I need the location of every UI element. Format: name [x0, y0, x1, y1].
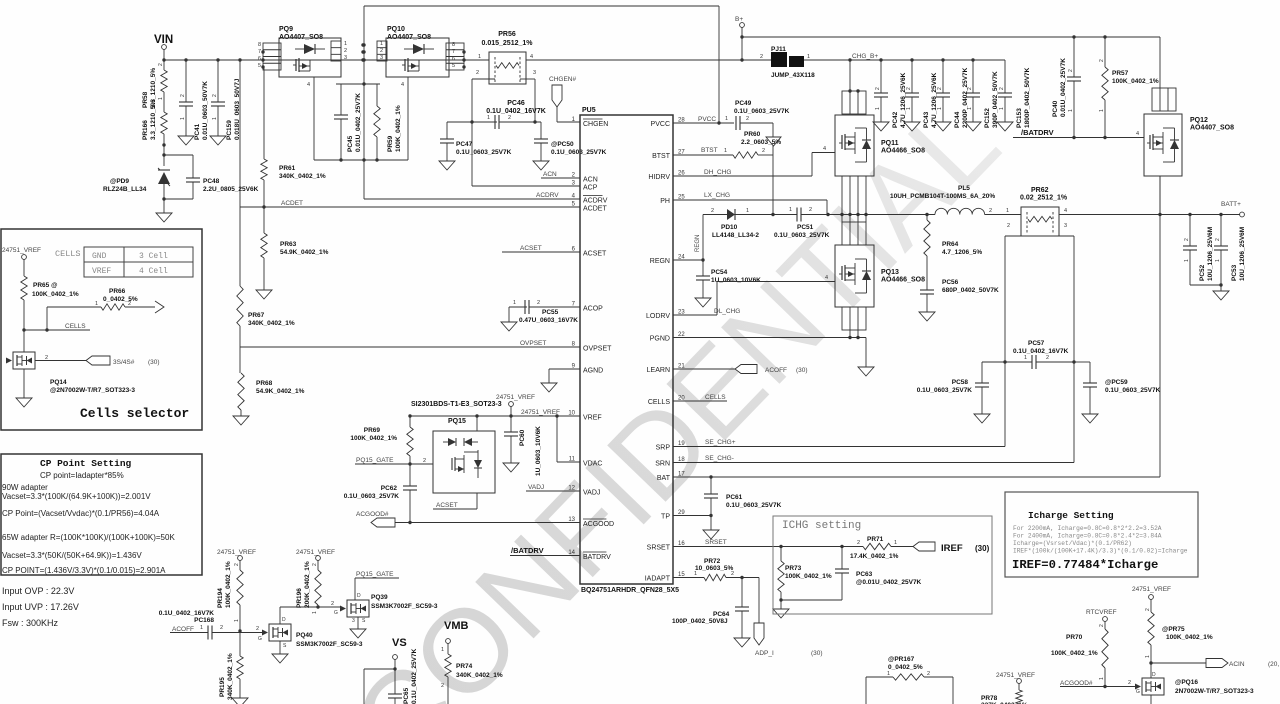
svg-text:1: 1: [1006, 208, 1009, 214]
svg-text:PC64: PC64: [713, 611, 730, 618]
svg-text:PC152: PC152: [984, 108, 991, 128]
svg-text:PQ9: PQ9: [279, 26, 293, 33]
svg-text:1: 1: [487, 115, 490, 121]
svg-text:0.01U_0603_50V7K: 0.01U_0603_50V7K: [202, 81, 209, 140]
svg-text:PC61: PC61: [726, 494, 743, 501]
svg-text:100K_0402_1%: 100K_0402_1%: [1166, 634, 1213, 641]
svg-text:LODRV: LODRV: [646, 313, 670, 320]
svg-text:24751_VREF: 24751_VREF: [1132, 586, 1171, 593]
svg-text:PR60: PR60: [744, 131, 761, 138]
svg-text:PL5: PL5: [958, 185, 970, 192]
svg-text:0.1U_0603_25V7K: 0.1U_0603_25V7K: [551, 149, 607, 156]
svg-text:BAT: BAT: [657, 475, 671, 482]
svg-text:54.9K_0402_1%: 54.9K_0402_1%: [256, 388, 305, 395]
svg-text:PC56: PC56: [942, 279, 959, 286]
svg-text:4: 4: [823, 146, 826, 152]
svg-text:1: 1: [180, 117, 186, 120]
svg-text:2: 2: [937, 87, 943, 90]
svg-text:2: 2: [256, 626, 259, 632]
svg-text:CHGEN: CHGEN: [583, 121, 608, 128]
svg-text:1: 1: [158, 97, 164, 100]
svg-text:VADJ: VADJ: [583, 490, 600, 497]
svg-text:@PR75: @PR75: [1162, 626, 1185, 633]
svg-text:PQ11: PQ11: [881, 140, 899, 147]
svg-text:2: 2: [331, 601, 334, 607]
svg-text:2: 2: [423, 458, 426, 464]
svg-text:PC46: PC46: [507, 100, 525, 107]
svg-text:JUMP_43X118: JUMP_43X118: [771, 72, 815, 79]
svg-text:0_0402_5%: 0_0402_5%: [888, 664, 923, 671]
svg-text:PR59: PR59: [387, 135, 394, 152]
svg-text:1: 1: [380, 41, 383, 47]
svg-text:2: 2: [927, 671, 930, 677]
svg-text:ACGOOD: ACGOOD: [583, 521, 614, 528]
svg-text:3: 3: [380, 55, 383, 61]
svg-text:2: 2: [344, 48, 347, 54]
svg-text:1: 1: [312, 611, 318, 614]
svg-text:1: 1: [999, 107, 1005, 110]
svg-text:LEARN: LEARN: [647, 367, 670, 374]
svg-text:100K_0402_1%: 100K_0402_1%: [32, 291, 79, 298]
svg-text:PR65 @: PR65 @: [33, 282, 57, 289]
svg-text:PC153: PC153: [1016, 108, 1023, 128]
svg-text:2: 2: [234, 563, 240, 566]
svg-text:REGN: REGN: [695, 235, 701, 252]
svg-text:IREF=0.77484*Icharge: IREF=0.77484*Icharge: [1012, 558, 1158, 572]
svg-text:0.1U_0603_25V7K: 0.1U_0603_25V7K: [1105, 387, 1161, 394]
svg-text:4.7U_1206_25V6K: 4.7U_1206_25V6K: [931, 72, 938, 128]
svg-text:1: 1: [1099, 109, 1105, 112]
svg-text:54.9K_0402_1%: 54.9K_0402_1%: [280, 249, 329, 256]
svg-text:90W adapter: 90W adapter: [2, 483, 48, 492]
svg-text:17.4K_0402_1%: 17.4K_0402_1%: [850, 553, 899, 560]
svg-text:2: 2: [380, 48, 383, 54]
svg-text:3.3_1210_5%: 3.3_1210_5%: [150, 100, 157, 140]
svg-text:PC55: PC55: [542, 309, 559, 316]
svg-text:PC45: PC45: [347, 135, 354, 152]
svg-text:ACSET: ACSET: [520, 245, 542, 252]
svg-text:PC51: PC51: [797, 224, 814, 231]
svg-text:D: D: [282, 617, 286, 623]
svg-text:2: 2: [1215, 238, 1221, 241]
svg-text:PR74: PR74: [456, 663, 473, 670]
svg-text:PR194: PR194: [217, 588, 224, 608]
svg-text:G: G: [258, 636, 262, 642]
svg-text:340K_0402_1%: 340K_0402_1%: [279, 173, 326, 180]
svg-text:1U_0603_10V6K: 1U_0603_10V6K: [711, 277, 761, 284]
svg-text:4.7U_1206_25V6K: 4.7U_1206_25V6K: [900, 72, 907, 128]
svg-text:0.01U_0402_25V7K: 0.01U_0402_25V7K: [355, 93, 362, 152]
svg-text:2: 2: [312, 563, 318, 566]
svg-text:PC60: PC60: [519, 429, 526, 446]
svg-text:OVPSET: OVPSET: [520, 340, 546, 347]
svg-text:2: 2: [1046, 355, 1049, 361]
svg-text:10_0603_5%: 10_0603_5%: [695, 565, 734, 572]
svg-text:1: 1: [200, 625, 203, 631]
svg-text:BATDRV: BATDRV: [583, 554, 611, 561]
svg-text:ACGOOD#: ACGOOD#: [356, 511, 389, 518]
svg-text:CHG_B+: CHG_B+: [852, 53, 878, 60]
svg-text:PD10: PD10: [721, 224, 738, 231]
svg-text:DL_CHG: DL_CHG: [714, 308, 740, 315]
svg-text:3: 3: [352, 618, 355, 624]
svg-text:LL4148_LL34-2: LL4148_LL34-2: [712, 232, 759, 239]
svg-text:PQ15: PQ15: [448, 418, 466, 425]
svg-text:PC62: PC62: [381, 485, 398, 492]
svg-text:AO4466_SO8: AO4466_SO8: [881, 277, 925, 284]
svg-text:1: 1: [234, 619, 240, 622]
svg-text:2: 2: [967, 87, 973, 90]
svg-text:PC159: PC159: [226, 120, 233, 140]
svg-text:5: 5: [452, 63, 455, 69]
svg-text:1: 1: [1215, 259, 1221, 262]
svg-text:Icharge=(Vsrset/Vdac)*(0.1/PR6: Icharge=(Vsrset/Vdac)*(0.1/PR62): [1013, 540, 1132, 547]
svg-text:PC57: PC57: [1028, 340, 1045, 347]
svg-text:ICHG setting: ICHG setting: [782, 520, 861, 532]
svg-text:/BATDRV: /BATDRV: [1021, 128, 1054, 137]
svg-text:PVCC: PVCC: [698, 116, 716, 123]
svg-text:4 Cell: 4 Cell: [139, 267, 168, 276]
svg-text:D: D: [357, 593, 361, 599]
svg-text:3S/4S#: 3S/4S#: [113, 359, 135, 366]
svg-text:1: 1: [441, 647, 444, 653]
svg-text:0.47U_0603_16V7K: 0.47U_0603_16V7K: [519, 317, 578, 324]
svg-text:1: 1: [344, 41, 347, 47]
svg-text:100K_0402_1%: 100K_0402_1%: [350, 435, 397, 442]
svg-text:PR195: PR195: [219, 677, 226, 697]
svg-text:VDAC: VDAC: [583, 461, 602, 468]
svg-text:1: 1: [746, 208, 749, 214]
svg-text:24751_VREF: 24751_VREF: [521, 409, 560, 416]
svg-text:For 2400mA, Icharge=0.8C=0.8*2: For 2400mA, Icharge=0.8C=0.8*2.4*2=3.84A: [1013, 533, 1162, 540]
svg-text:LX_CHG: LX_CHG: [704, 192, 730, 199]
svg-text:VS: VS: [392, 637, 407, 649]
svg-text:ACOFF: ACOFF: [172, 626, 194, 633]
svg-text:2: 2: [508, 115, 511, 121]
svg-text:PR56: PR56: [498, 31, 516, 38]
svg-text:PC42: PC42: [892, 111, 899, 128]
svg-text:PC52: PC52: [1199, 264, 1206, 281]
svg-text:G: G: [1136, 689, 1140, 695]
svg-text:@PC50: @PC50: [551, 141, 574, 148]
svg-text:0.1U_0603_25V7K: 0.1U_0603_25V7K: [917, 387, 973, 394]
svg-text:1800P_0402_50V7K: 1800P_0402_50V7K: [1024, 67, 1031, 128]
svg-text:SRSET: SRSET: [705, 539, 727, 546]
svg-text:0.015_2512_1%: 0.015_2512_1%: [482, 40, 534, 47]
svg-text:2200P_0402_25V7K: 2200P_0402_25V7K: [962, 67, 969, 128]
svg-text:2: 2: [1068, 69, 1074, 72]
svg-text:2: 2: [220, 625, 223, 631]
svg-text:BQ24751ARHDR_QFN28_5X5: BQ24751ARHDR_QFN28_5X5: [581, 587, 679, 594]
svg-text:BTST: BTST: [701, 147, 718, 154]
svg-text:CP point=Iadapter*85%: CP point=Iadapter*85%: [40, 471, 124, 480]
svg-text:D: D: [1152, 672, 1156, 678]
svg-text:/BATDRV: /BATDRV: [511, 546, 544, 555]
svg-text:PC44: PC44: [954, 111, 961, 128]
svg-text:ACP: ACP: [583, 185, 598, 192]
svg-text:2: 2: [760, 54, 763, 60]
svg-text:2: 2: [1128, 680, 1131, 686]
svg-text:2: 2: [45, 355, 48, 361]
svg-text:340K_0402_1%: 340K_0402_1%: [248, 320, 295, 327]
svg-text:0.1U_0603_25V7K: 0.1U_0603_25V7K: [726, 502, 782, 509]
svg-text:ACGOOD#: ACGOOD#: [1060, 680, 1093, 687]
svg-text:2: 2: [1184, 238, 1190, 241]
svg-text:24751_VREF: 24751_VREF: [496, 394, 535, 401]
svg-text:4: 4: [307, 82, 310, 88]
svg-text:PR61: PR61: [279, 165, 296, 172]
svg-text:24751_VREF: 24751_VREF: [996, 672, 1035, 679]
svg-text:24751_VREF: 24751_VREF: [296, 549, 335, 556]
svg-text:PQ13: PQ13: [881, 269, 899, 276]
svg-text:1: 1: [906, 107, 912, 110]
svg-text:BATT+: BATT+: [1221, 201, 1241, 208]
svg-text:6: 6: [258, 56, 261, 62]
svg-text:Input UVP : 17.26V: Input UVP : 17.26V: [2, 602, 79, 612]
svg-text:(20,: (20,: [1268, 661, 1279, 668]
svg-text:PQ40: PQ40: [296, 632, 313, 639]
svg-text:2: 2: [158, 63, 164, 66]
svg-text:CP POINT=(1.436V/3.3V)*(0.1/0.: CP POINT=(1.436V/3.3V)*(0.1/0.015)=2.901…: [2, 566, 166, 575]
svg-text:10U_1206_25V6M: 10U_1206_25V6M: [1239, 227, 1246, 281]
svg-text:ACSET: ACSET: [583, 251, 607, 258]
svg-text:TP: TP: [661, 514, 670, 521]
svg-text:@PD9: @PD9: [110, 178, 129, 185]
svg-text:2: 2: [746, 116, 749, 122]
svg-text:2: 2: [1099, 624, 1105, 627]
svg-text:ACN: ACN: [543, 171, 557, 178]
svg-text:PR78: PR78: [981, 695, 998, 702]
svg-text:1: 1: [967, 107, 973, 110]
svg-text:24751_VREF: 24751_VREF: [2, 247, 41, 254]
svg-text:Icharge Setting: Icharge Setting: [1028, 510, 1114, 521]
svg-text:ACOP: ACOP: [583, 306, 603, 313]
svg-text:PR196: PR196: [296, 588, 303, 608]
svg-text:Vacset=3.3*(100K/(64.9K+100K)): Vacset=3.3*(100K/(64.9K+100K))=2.001V: [2, 492, 151, 501]
svg-text:2: 2: [875, 87, 881, 90]
svg-text:ACIN: ACIN: [1229, 661, 1245, 668]
svg-text:1: 1: [478, 54, 481, 60]
svg-text:SSM3K7002F_SC59-3: SSM3K7002F_SC59-3: [296, 641, 363, 648]
svg-text:SI2301BDS-T1-E3_SOT23-3: SI2301BDS-T1-E3_SOT23-3: [411, 401, 502, 408]
svg-text:PC58: PC58: [952, 379, 969, 386]
svg-text:0_0402_5%: 0_0402_5%: [103, 296, 138, 303]
svg-text:PR72: PR72: [704, 558, 721, 565]
svg-text:VREF: VREF: [92, 267, 111, 276]
svg-text:B+: B+: [735, 16, 743, 23]
svg-text:PQ14: PQ14: [50, 379, 67, 386]
svg-text:0.1U_0603_25V7K: 0.1U_0603_25V7K: [456, 149, 512, 156]
svg-text:8: 8: [258, 42, 261, 48]
svg-text:SE_CHG-: SE_CHG-: [705, 455, 734, 462]
svg-text:0.02_2512_1%: 0.02_2512_1%: [1020, 195, 1068, 202]
svg-text:2: 2: [711, 208, 714, 214]
svg-text:RLZ24B_LL34: RLZ24B_LL34: [103, 186, 147, 193]
svg-text:PR62: PR62: [1031, 187, 1049, 194]
svg-text:2: 2: [999, 87, 1005, 90]
svg-text:PC43: PC43: [923, 111, 930, 128]
svg-text:3: 3: [533, 70, 536, 76]
svg-text:1: 1: [95, 301, 98, 307]
svg-text:2: 2: [212, 94, 218, 97]
svg-text:(30): (30): [811, 650, 823, 657]
svg-text:PH: PH: [660, 198, 670, 205]
svg-text:100K_0402_1%: 100K_0402_1%: [1051, 650, 1098, 657]
svg-text:@PC59: @PC59: [1105, 379, 1128, 386]
svg-text:For 2200mA, Icharge=0.8C=0.8*2: For 2200mA, Icharge=0.8C=0.8*2*2.2=3.52A: [1013, 525, 1162, 532]
svg-text:2: 2: [180, 94, 186, 97]
svg-text:65W adapter R=(100K*100K)/(10: 65W adapter R=(100K*100K)/(100K+100K)=50…: [2, 533, 175, 542]
svg-text:PQ15_GATE: PQ15_GATE: [356, 457, 394, 464]
svg-text:PC168: PC168: [194, 617, 214, 624]
svg-text:CELLS: CELLS: [55, 249, 81, 259]
svg-text:680P_0402_50V7K: 680P_0402_50V7K: [942, 287, 999, 294]
svg-text:200K_0402_1%: 200K_0402_1%: [304, 561, 311, 608]
svg-text:CELLS: CELLS: [648, 399, 671, 406]
svg-text:5: 5: [258, 63, 261, 69]
svg-text:Fsw : 300KHz: Fsw : 300KHz: [2, 618, 59, 628]
svg-text:1: 1: [724, 148, 727, 154]
svg-text:PVCC: PVCC: [651, 121, 670, 128]
svg-text:PQ15_GATE: PQ15_GATE: [356, 571, 394, 578]
svg-text:RTCVREF: RTCVREF: [1086, 609, 1117, 616]
svg-text:PJ11: PJ11: [771, 46, 786, 53]
svg-text:IADAPT: IADAPT: [645, 576, 671, 583]
svg-text:SE_CHG+: SE_CHG+: [705, 439, 736, 446]
svg-text:2.2_0603_5%: 2.2_0603_5%: [741, 139, 781, 146]
svg-text:PQ12: PQ12: [1190, 117, 1208, 124]
svg-text:PQ10: PQ10: [387, 26, 405, 33]
svg-text:(30): (30): [796, 367, 808, 374]
svg-text:4: 4: [530, 54, 533, 60]
svg-text:PR67: PR67: [248, 312, 265, 319]
svg-text:PC63: PC63: [856, 571, 873, 578]
svg-text:4.7_1206_5%: 4.7_1206_5%: [942, 249, 982, 256]
svg-text:SRN: SRN: [655, 461, 670, 468]
svg-text:SSM3K7002F_SC59-3: SSM3K7002F_SC59-3: [371, 603, 438, 610]
svg-text:Input OVP : 22.3V: Input OVP : 22.3V: [2, 586, 74, 596]
svg-text:PR73: PR73: [785, 565, 802, 572]
svg-text:1: 1: [1145, 655, 1151, 658]
svg-text:100K_0402_1%: 100K_0402_1%: [785, 573, 832, 580]
svg-text:@PQ16: @PQ16: [1175, 679, 1198, 686]
svg-text:AO4466_SO8: AO4466_SO8: [881, 148, 925, 155]
svg-text:1: 1: [789, 207, 792, 213]
svg-text:PR70: PR70: [1066, 634, 1083, 641]
svg-text:PC54: PC54: [711, 269, 728, 276]
svg-text:100P_0402_50V8J: 100P_0402_50V8J: [672, 618, 728, 625]
svg-text:7: 7: [452, 49, 455, 55]
svg-text:2: 2: [989, 208, 992, 214]
svg-text:0.1U_0603_25V7K: 0.1U_0603_25V7K: [774, 232, 830, 239]
svg-text:2: 2: [857, 540, 860, 546]
svg-text:Vacset=3.3*(50K/(50K+64.9K))=1: Vacset=3.3*(50K/(50K+64.9K))=1.436V: [2, 551, 142, 560]
svg-text:1U_0603_10V6K: 1U_0603_10V6K: [535, 426, 542, 476]
svg-text:@2N7002W-T/R7_SOT323-3: @2N7002W-T/R7_SOT323-3: [50, 387, 135, 394]
svg-text:1: 1: [937, 107, 943, 110]
svg-text:0.1U_0402_16V7K: 0.1U_0402_16V7K: [486, 108, 546, 115]
svg-text:1: 1: [807, 54, 810, 60]
svg-text:ADP_I: ADP_I: [755, 650, 774, 657]
svg-text:HIDRV: HIDRV: [648, 174, 670, 181]
svg-text:0.1U_0603_25V7K: 0.1U_0603_25V7K: [344, 493, 400, 500]
svg-text:CP Point=(Vacset/Vvdac)*(0.1/P: CP Point=(Vacset/Vvdac)*(0.1/PR56)=4.04A: [2, 509, 160, 518]
svg-text:1: 1: [1099, 677, 1105, 680]
svg-text:2: 2: [1099, 59, 1105, 62]
svg-text:4: 4: [825, 275, 828, 281]
svg-text:2.2U_0805_25V6K: 2.2U_0805_25V6K: [203, 186, 259, 193]
svg-text:3: 3: [1064, 223, 1067, 229]
svg-text:PR69: PR69: [364, 427, 381, 434]
svg-text:2: 2: [1007, 223, 1010, 229]
svg-text:PQ39: PQ39: [371, 594, 388, 601]
svg-text:@PR167: @PR167: [888, 656, 915, 663]
svg-text:ACN: ACN: [583, 177, 598, 184]
svg-text:1: 1: [1068, 109, 1074, 112]
svg-text:ACDRV: ACDRV: [536, 192, 559, 199]
svg-text:2: 2: [476, 70, 479, 76]
svg-text:PR63: PR63: [280, 241, 297, 248]
svg-text:3: 3: [344, 55, 347, 61]
svg-text:PC47: PC47: [456, 141, 473, 148]
svg-text:PR68: PR68: [256, 380, 273, 387]
svg-text:AGND: AGND: [583, 368, 603, 375]
svg-text:0.01U_0402_25V7K: 0.01U_0402_25V7K: [1060, 58, 1067, 117]
svg-text:PC48: PC48: [203, 178, 220, 185]
svg-text:VADJ: VADJ: [528, 484, 544, 491]
svg-text:2: 2: [537, 300, 540, 306]
svg-text:ACSET: ACSET: [436, 502, 458, 509]
svg-text:7: 7: [258, 49, 261, 55]
svg-text:(30): (30): [975, 544, 990, 553]
svg-text:PC65: PC65: [403, 687, 410, 704]
svg-text:100K_0402_1%: 100K_0402_1%: [395, 105, 402, 152]
svg-text:CELLS: CELLS: [705, 394, 726, 401]
svg-text:VMB: VMB: [444, 620, 469, 632]
svg-text:ACDRV: ACDRV: [583, 198, 608, 205]
svg-text:BTST: BTST: [652, 153, 671, 160]
svg-text:PR64: PR64: [942, 241, 959, 248]
svg-text:3 Cell: 3 Cell: [139, 252, 168, 261]
svg-text:Cells selector: Cells selector: [80, 406, 189, 421]
svg-text:1: 1: [875, 107, 881, 110]
svg-text:REGN: REGN: [650, 258, 670, 265]
svg-text:2: 2: [128, 301, 131, 307]
svg-text:1: 1: [1024, 355, 1027, 361]
svg-text:100K_0402_1%: 100K_0402_1%: [225, 561, 232, 608]
svg-text:340K_0402_1%: 340K_0402_1%: [227, 653, 234, 700]
svg-text:(30): (30): [148, 359, 160, 366]
svg-text:ACOFF: ACOFF: [765, 367, 787, 374]
svg-text:ACDET: ACDET: [583, 206, 607, 213]
svg-text:2N7002W-T/R7_SOT323-3: 2N7002W-T/R7_SOT323-3: [1175, 688, 1254, 695]
svg-text:2: 2: [762, 148, 765, 154]
svg-text:2: 2: [441, 683, 444, 689]
svg-text:0.1U_0402_25V7K: 0.1U_0402_25V7K: [411, 648, 418, 704]
svg-text:IREF*(100k/(100K+17.4K)/3.3)*(: IREF*(100k/(100K+17.4K)/3.3)*(0.1/0.02)=…: [1013, 548, 1188, 555]
svg-text:IREF: IREF: [941, 543, 963, 554]
svg-text:ACDET: ACDET: [281, 200, 303, 207]
svg-text:1: 1: [513, 300, 516, 306]
svg-text:AO4407_SO8: AO4407_SO8: [1190, 125, 1234, 132]
svg-text:PR166: PR166: [142, 120, 149, 140]
svg-text:@0.01U_0402_25V7K: @0.01U_0402_25V7K: [856, 579, 922, 586]
svg-text:SRSET: SRSET: [647, 545, 671, 552]
svg-text:DH_CHG: DH_CHG: [704, 169, 731, 176]
svg-text:SRP: SRP: [656, 445, 671, 452]
svg-text:0.1U_0402_16V7K: 0.1U_0402_16V7K: [159, 610, 215, 617]
svg-text:2: 2: [906, 87, 912, 90]
